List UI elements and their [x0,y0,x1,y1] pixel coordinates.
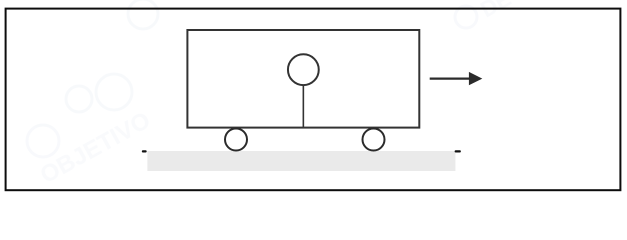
arrow head [469,72,482,85]
cart body [187,30,419,128]
left wheel [225,129,247,151]
pendulum bob [288,54,319,85]
pendulum stem [302,85,304,127]
watermark logo circles (faint) [27,0,477,157]
svg-text:DE: DE [476,0,515,22]
border frame [6,9,621,191]
ground strip [147,151,455,171]
watermark text (faint) [36,0,515,189]
right wheel [363,129,385,151]
svg-text:OBJETIVO: OBJETIVO [36,107,155,189]
arrow shaft [430,77,471,79]
left dash [142,150,147,152]
right dash [455,150,461,152]
